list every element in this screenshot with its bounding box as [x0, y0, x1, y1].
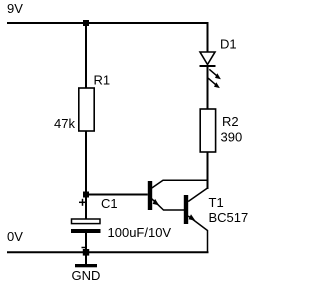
transistor T1 first base bar — [148, 181, 152, 210]
resistor R1 body — [79, 88, 94, 131]
wire R2 bottom to collector node — [207, 152, 209, 189]
capacitor C1 positive plate — [72, 219, 101, 224]
svg-text:C1: C1 — [101, 196, 118, 211]
svg-text:D1: D1 — [220, 37, 237, 52]
wire junction to ground symbol — [85, 255, 87, 265]
svg-text:9V: 9V — [7, 1, 23, 16]
svg-text:T1: T1 — [209, 195, 224, 210]
svg-text:GND: GND — [72, 268, 101, 283]
transistor T1 first emitter — [152, 199, 184, 210]
svg-text:390: 390 — [221, 130, 243, 145]
capacitor C1 negative plate — [71, 229, 101, 233]
LED D1 light arrow 1 — [209, 69, 221, 79]
ground symbol bar — [75, 264, 97, 267]
transistor T1 second emitter arrowhead — [189, 214, 196, 221]
svg-text:100uF/10V: 100uF/10V — [108, 225, 172, 240]
LED D1 cathode bar — [200, 65, 216, 67]
transistor T1 second base bar — [184, 195, 188, 224]
svg-text:BC517: BC517 — [209, 210, 249, 225]
node junction on 0V rail — [83, 249, 89, 256]
wire LED cathode to R2 top — [207, 66, 209, 109]
LED D1 triangle — [200, 52, 215, 65]
svg-text:R1: R1 — [94, 73, 111, 88]
resistor R2 body — [200, 109, 215, 152]
svg-text:47k: 47k — [54, 116, 75, 131]
wire C1 to 0V rail — [85, 233, 87, 252]
node junction R1/C1/base — [83, 192, 89, 198]
wire junction to C1 top plate — [85, 197, 87, 219]
transistor T1 second emitter — [188, 216, 207, 252]
transistor T1 first collector — [152, 180, 208, 188]
wire base from junction to T1 — [86, 194, 148, 196]
transistor T1 first emitter arrowhead — [153, 199, 160, 206]
wire R1 bottom to capacitor junction — [85, 131, 87, 194]
node junction on 9V rail — [83, 20, 89, 26]
capacitor C1 plus sign — [79, 199, 86, 206]
svg-text:0V: 0V — [7, 229, 23, 244]
LED D1 light arrow 2 — [208, 78, 220, 88]
transistor T1 second collector — [188, 188, 207, 202]
svg-text:R2: R2 — [222, 114, 239, 129]
capacitor C1 minus sign — [82, 247, 86, 249]
wire junction to R1 top — [85, 23, 87, 88]
wire 0V rail — [7, 251, 209, 253]
wire 9V supply rail — [7, 23, 208, 52]
